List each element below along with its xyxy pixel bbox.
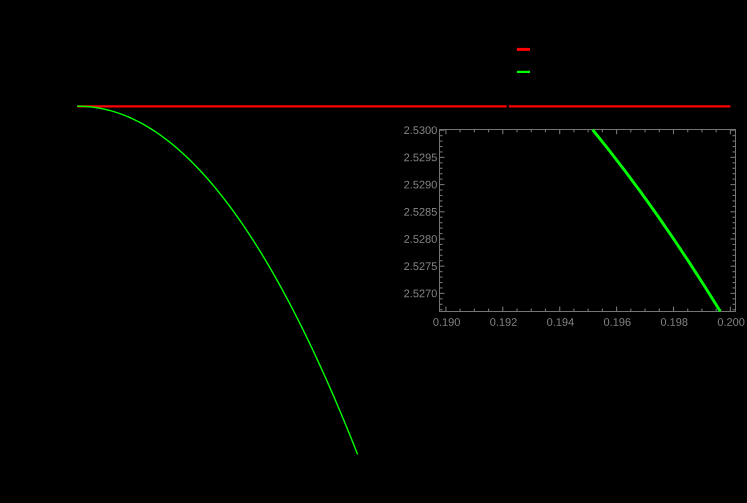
inset frame (440, 130, 736, 312)
legend red sample (517, 48, 530, 51)
inset green line (593, 130, 721, 312)
main red horizontal line (left part) (78, 105, 507, 107)
inset ticks (440, 130, 735, 312)
legend green sample (517, 71, 530, 73)
main green curve (77, 106, 358, 454)
inset x tick labels (433, 318, 744, 326)
inset y tick labels (404, 126, 437, 297)
main red horizontal line (right part after small gap) (509, 105, 731, 107)
